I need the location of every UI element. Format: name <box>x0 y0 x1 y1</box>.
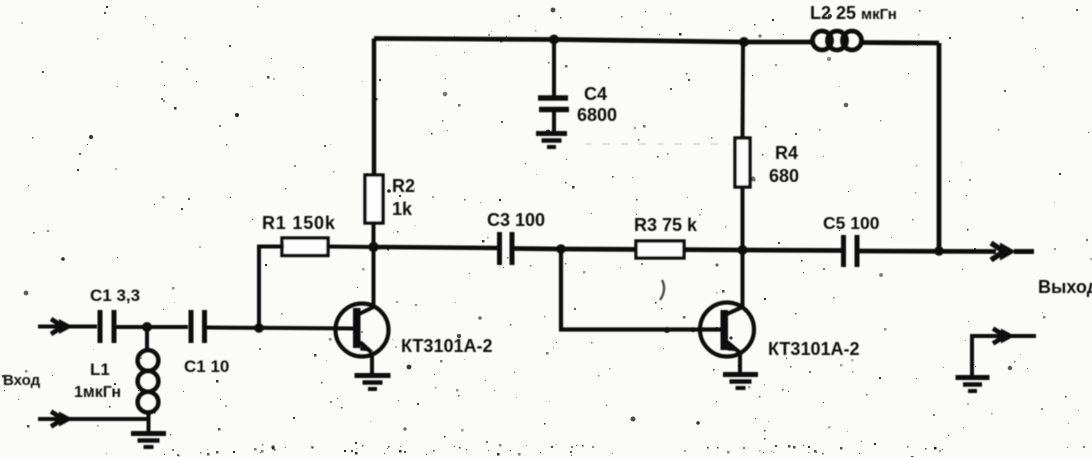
wire Q2 emitter to ground <box>738 352 742 374</box>
svg-text:1k: 1k <box>392 199 413 219</box>
input arrow lower <box>59 412 73 427</box>
wire right vertical <box>937 43 942 251</box>
wire top rail to R2 <box>372 39 377 177</box>
inductor L1 <box>138 350 159 412</box>
svg-text:КТ3101А-2: КТ3101А-2 <box>768 339 859 359</box>
wire Q1 base lead <box>207 328 356 329</box>
wire R1 right lead <box>327 245 373 250</box>
svg-text:1мкГн: 1мкГн <box>74 384 121 401</box>
wire ground stub corner <box>972 336 1036 375</box>
Q1 base bar <box>353 308 361 348</box>
svg-text:C3 100: C3 100 <box>487 210 545 230</box>
node at top rail / R4 <box>739 37 749 47</box>
capacitor C4 <box>538 98 569 110</box>
node right vertical / output <box>934 246 944 256</box>
wire Q1 emitter to ground <box>370 352 374 375</box>
wire R4 top lead <box>741 42 746 139</box>
wire L1 bottom to ground <box>147 411 151 431</box>
Q1 emitter stroke with arrow <box>359 342 371 352</box>
svg-text:R1 150k: R1 150k <box>262 213 336 233</box>
svg-text:L1: L1 <box>90 360 110 379</box>
svg-text:680: 680 <box>769 166 799 186</box>
wire input upper lead <box>38 325 97 329</box>
arrow on ground stub <box>1001 329 1015 344</box>
input arrow upper <box>59 319 73 334</box>
svg-text:R2: R2 <box>392 176 415 196</box>
wire middle rail: node R2 to C3 <box>373 247 497 248</box>
transistor Q1 circle <box>336 304 389 357</box>
wire output tail <box>1014 249 1034 254</box>
capacitor C3 <box>500 232 513 265</box>
wire middle rail: C3 to C5 <box>515 249 842 251</box>
output arrow <box>1000 243 1016 261</box>
Q2 emitter stroke with arrow <box>727 342 739 352</box>
ground bottom right <box>956 378 990 392</box>
wire R4 bottom lead to Q2 collector <box>741 187 745 307</box>
node at top rail / C4 <box>549 35 559 45</box>
ground under Q2 <box>723 375 758 389</box>
svg-text:R4: R4 <box>775 143 798 163</box>
svg-text:R3 75 k: R3 75 k <box>634 215 698 235</box>
Q2 collector stroke <box>727 307 743 314</box>
node C1 / L1 <box>142 322 152 332</box>
wire C4 bottom lead <box>552 112 556 131</box>
resistor R3 <box>636 241 684 258</box>
svg-text:С1 10: С1 10 <box>184 357 229 376</box>
ground under Q1 <box>355 376 391 390</box>
Q1 collector stroke <box>359 307 374 314</box>
node R1 / Q1 base <box>254 323 264 333</box>
node C3 / Q2 base branch <box>556 244 566 254</box>
wire middle rail: C5 to output <box>860 249 997 254</box>
scan squiggle artifact <box>660 280 664 300</box>
wire C3 node down to Q2 base <box>561 249 723 330</box>
wire top rail left segment <box>374 39 814 43</box>
svg-text:C5 100: C5 100 <box>823 213 880 233</box>
node R4 / C5 line <box>738 245 748 255</box>
ground under C4 <box>536 134 567 148</box>
svg-text:6800: 6800 <box>577 105 617 125</box>
wire node to L1 <box>145 327 149 351</box>
Q2 base bar <box>721 310 729 350</box>
wire C4 top lead <box>552 40 556 97</box>
transistor Q2 circle <box>700 303 754 357</box>
capacitor C5 <box>844 235 858 267</box>
svg-text:L2 25 мкГн: L2 25 мкГн <box>810 3 897 23</box>
ground under L1 <box>131 434 166 448</box>
resistor R2 <box>365 175 383 223</box>
wire top rail right segment <box>860 40 939 45</box>
svg-text:Вход: Вход <box>3 372 41 389</box>
junction speck on base wire <box>664 327 670 333</box>
svg-text:КТ3101А-2: КТ3101А-2 <box>401 336 492 356</box>
svg-text:C4: C4 <box>584 84 607 104</box>
resistor R1 <box>282 238 328 256</box>
inductor L2 <box>813 31 862 50</box>
wire input lower lead <box>38 417 148 421</box>
resistor R4 <box>735 138 750 187</box>
capacitor C1 (3,3) <box>100 310 114 343</box>
wire C1 to C1b with node <box>117 325 189 329</box>
capacitor C1 (10) <box>191 310 205 343</box>
svg-text:С1 3,3: С1 3,3 <box>90 286 140 305</box>
wire R1 left lead down to base <box>259 247 284 329</box>
wire (faint scan dash artifact) <box>585 143 730 145</box>
wire R2 bottom lead to Q1 collector <box>372 223 376 308</box>
svg-text:Выход: Выход <box>1038 277 1092 297</box>
node R2 / middle rail <box>368 242 378 252</box>
